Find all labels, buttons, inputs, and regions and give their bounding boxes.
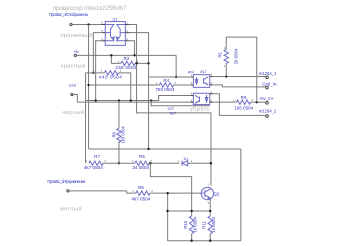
svg-text:R9: R9 <box>138 185 144 190</box>
svg-text:34 0504: 34 0504 <box>132 165 149 170</box>
wire Q1 pin3 right <box>129 41 135 56</box>
junction R8 top <box>118 99 120 101</box>
junction ubrat drop <box>150 99 152 101</box>
optocoupler pc2 <box>168 91 213 116</box>
svg-text:черный: черный <box>62 109 84 116</box>
svg-text:убрать: убрать <box>190 107 210 113</box>
pin P51 terminal <box>67 190 69 192</box>
resistor R11 vertical <box>202 216 216 234</box>
svg-text:Gnd: Gnd <box>69 84 76 88</box>
wire B R4 row left <box>89 84 160 86</box>
junction Vc end <box>94 99 96 101</box>
junction R1 net on R5 row <box>256 101 258 103</box>
svg-text:m1264_1: m1264_1 <box>259 71 277 76</box>
pc2 LED <box>205 95 208 103</box>
svg-text:750 0504: 750 0504 <box>155 87 175 92</box>
svg-text:4k7 0504: 4k7 0504 <box>84 165 103 170</box>
resistor R2 <box>115 56 139 70</box>
svg-text:pc2: pc2 <box>168 107 174 111</box>
svg-text:R6: R6 <box>139 154 145 159</box>
wire Q1 pin1 right long <box>129 25 211 186</box>
junction drop at 150 <box>149 162 151 164</box>
wire ubrat row <box>151 101 210 106</box>
wire Q1 pinL3 down Vc <box>96 41 102 101</box>
svg-text:R4: R4 <box>163 78 169 83</box>
wire R7 to R6 <box>103 162 135 164</box>
resistor R4 <box>155 78 176 92</box>
resistor R9 <box>131 185 153 202</box>
svg-text:Пров52_п/Отображена: Пров52_п/Отображена <box>49 12 89 17</box>
wire rail2a <box>86 95 194 100</box>
transistor Q2 <box>201 182 220 205</box>
resistor R10 vertical <box>183 216 197 234</box>
svg-text:4k7 0504: 4k7 0504 <box>131 196 150 201</box>
resistor R3 <box>99 69 122 80</box>
svg-text:R5: R5 <box>241 95 247 100</box>
wire R6 to D1 <box>149 162 180 164</box>
pc1 LED <box>195 77 198 85</box>
junction on P52 wire <box>87 23 89 25</box>
resistor R6 <box>132 154 153 170</box>
wire R9 to Q2 base <box>150 192 201 194</box>
resistor R1 vertical <box>217 46 238 68</box>
junction R8 bottom <box>118 162 120 164</box>
wire box2 TR to m1264_2 <box>210 94 266 116</box>
right BJT of Q1 <box>117 25 126 41</box>
svg-text:1k5 0504: 1k5 0504 <box>234 106 253 111</box>
svg-text:R11: R11 <box>202 220 207 228</box>
junction R2 left on +5v rail <box>110 54 112 56</box>
wire loop right vertical <box>240 149 242 241</box>
wire row 210.6 <box>167 210 210 212</box>
svg-text:R7: R7 <box>94 154 100 159</box>
pc2 phototransistor <box>195 95 200 103</box>
junction row left <box>166 210 168 212</box>
svg-text:R1: R1 <box>217 51 222 57</box>
wire P52 to Q1 <box>72 24 105 26</box>
svg-text:желтый: желтый <box>60 206 82 213</box>
junction R3 drop <box>130 99 132 101</box>
wire Q1 pinL2 down to R3 lead <box>93 33 101 73</box>
svg-text:красный: красный <box>61 62 85 69</box>
svg-text:Q2: Q2 <box>214 191 220 196</box>
junction R11 bottom <box>209 240 211 242</box>
wire R10 bottom <box>191 234 193 241</box>
wire A box1 anode <box>149 76 194 78</box>
svg-text:Gnd_In-: Gnd_In- <box>262 81 278 86</box>
wire P51 to R9 <box>69 191 136 193</box>
wire R2 left lead up <box>111 55 121 63</box>
wire R1 bottom lead <box>225 63 227 76</box>
wire m1264_1 row <box>210 76 266 78</box>
junction R2 right on p2 <box>147 62 149 64</box>
wire bottom rail <box>167 240 240 242</box>
junction row R10 <box>190 210 192 212</box>
wire R9 net drop <box>167 193 169 241</box>
wire rail2b gnd <box>77 101 193 103</box>
svg-text:оранжевый: оранжевый <box>60 32 92 39</box>
left BJT of Q1 <box>105 25 114 41</box>
diode D1 <box>178 157 193 166</box>
svg-text:238 0504: 238 0504 <box>115 65 136 70</box>
wire R5 row left <box>210 101 237 103</box>
wire B R4 row right <box>173 84 193 86</box>
svg-text:817: 817 <box>170 112 176 116</box>
svg-text:1k 0504: 1k 0504 <box>192 216 197 232</box>
wire Va vertical <box>88 25 90 149</box>
junction p3 on +5v rail <box>133 54 135 56</box>
junction diode right <box>210 162 212 164</box>
svg-text:817: 817 <box>200 70 206 74</box>
svg-text:+5v_In+: +5v_In+ <box>259 96 275 101</box>
wire R8 top lead <box>118 101 120 129</box>
wire R1 pi top <box>226 37 257 102</box>
wire rail y148.6 <box>89 148 241 150</box>
junction wireB left <box>87 84 89 86</box>
svg-text:2k 0504: 2k 0504 <box>233 48 238 64</box>
junction p1 on R2 lead <box>135 62 137 64</box>
svg-text:1k5 0504: 1k5 0504 <box>121 126 126 144</box>
wire Q1 pin2 right <box>129 33 149 149</box>
svg-text:+5v: +5v <box>73 50 79 54</box>
wire +5v drop to box1 anode <box>175 55 177 77</box>
svg-text:1k 0504: 1k 0504 <box>211 216 216 232</box>
wire drop to R10 feed <box>150 163 191 216</box>
junction p2 at rail <box>147 148 149 150</box>
resistor R8 vertical <box>111 126 125 144</box>
svg-text:R10: R10 <box>183 220 188 229</box>
wire R5 row right <box>250 101 265 103</box>
wire R2 right lead <box>135 62 148 64</box>
junction R9 row drop <box>166 192 168 194</box>
wire R8 bottom lead <box>118 141 120 163</box>
resistor R5 <box>233 95 254 111</box>
junction L2 on R3 lead <box>92 72 94 74</box>
resistor R7 <box>84 154 107 170</box>
svg-text:m1264_2: m1264_2 <box>259 109 277 114</box>
wire R11 bottom <box>209 234 211 241</box>
optocoupler pc1 <box>188 70 213 87</box>
svg-text:процессор mke1xz256vlh7: процессор mke1xz256vlh7 <box>53 5 127 12</box>
wire gnd pin lead <box>73 95 77 103</box>
pc1 phototransistor <box>204 77 209 85</box>
svg-text:R8: R8 <box>111 132 116 138</box>
wire R3 left lead <box>86 72 105 74</box>
junction +5v on wireA <box>175 76 177 78</box>
transistor pair Q1 <box>101 18 129 46</box>
wire R3 net down to R7 <box>85 73 87 163</box>
junction row R11 <box>209 210 211 212</box>
svg-text:Q1: Q1 <box>113 18 118 22</box>
wire D1 right <box>188 162 211 164</box>
wire Q2 emitter down <box>209 198 211 216</box>
wire Gnd_In row <box>210 85 266 87</box>
junction R1 bottom <box>225 75 227 77</box>
wire R3 right lead <box>118 73 130 101</box>
junction R10 bottom <box>190 240 192 242</box>
wire +5v rail <box>77 54 176 56</box>
svg-text:Пров51_бл/управления: Пров51_бл/управления <box>47 179 85 184</box>
pin P52 terminal <box>70 23 72 25</box>
svg-text:443 0504: 443 0504 <box>99 74 122 79</box>
